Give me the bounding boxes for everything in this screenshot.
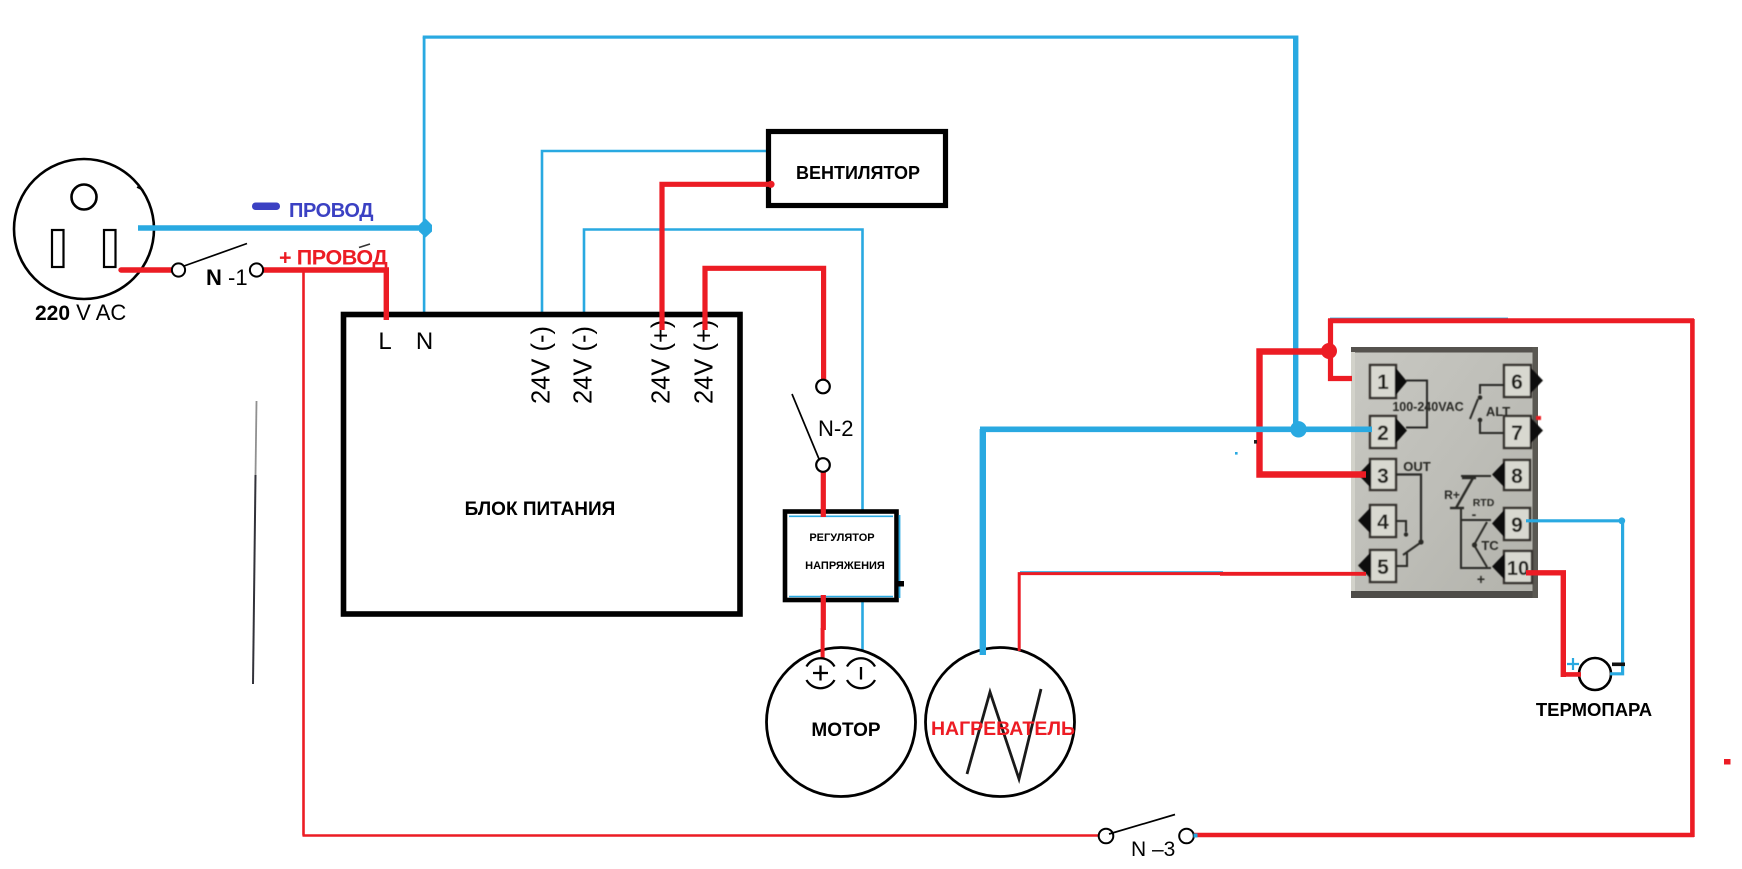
wire blue plug to junction <box>138 225 424 230</box>
svg-text:НАГРЕВАТЕЛЬ: НАГРЕВАТЕЛЬ <box>931 718 1075 740</box>
svg-text:100-240VAC: 100-240VAC <box>1392 400 1463 414</box>
svg-text:6: 6 <box>1511 371 1523 394</box>
red dot artifact right margin <box>1724 759 1731 765</box>
pin 9 <box>1504 508 1530 540</box>
legend dash blue <box>252 203 280 211</box>
wire red bottom left to switch N-3 <box>303 834 1100 837</box>
wire blue top horizontal <box>423 36 1296 39</box>
wire red plug to switch N-1 <box>121 267 173 272</box>
svg-text:БЛОК ПИТАНИЯ: БЛОК ПИТАНИЯ <box>465 499 616 520</box>
svg-text:5: 5 <box>1377 556 1389 579</box>
wire blue 24V(-) #1 to fan <box>542 151 774 320</box>
stray pencil line <box>256 401 257 475</box>
junction dot blue (controller) <box>1290 421 1306 437</box>
svg-text:L: L <box>378 328 391 355</box>
wire blue thin artifact above heater red wire <box>1020 571 1223 573</box>
wire blue N vertical riser <box>423 37 426 229</box>
pin 8 <box>1504 460 1530 490</box>
module pins and internal wiring <box>1358 365 1543 587</box>
svg-text:-: - <box>1472 506 1477 522</box>
wire blue horizontal to controller pin 2 <box>980 426 1372 432</box>
svg-text:OUT: OUT <box>1403 459 1431 474</box>
ALT switch <box>1480 385 1505 394</box>
svg-text:24V (-): 24V (-) <box>528 326 556 404</box>
pin 7 <box>1504 416 1531 448</box>
motor terminal (+) rotated <box>807 658 835 688</box>
wire blue right drop thick <box>1293 36 1298 430</box>
speck blue near module <box>1235 452 1238 455</box>
svg-text:ТЕРМОПАРА: ТЕРМОПАРА <box>1536 699 1652 720</box>
svg-text:8: 8 <box>1511 465 1523 488</box>
svg-text:R+: R+ <box>1444 488 1460 502</box>
plug 220V AC <box>14 159 154 299</box>
svg-text:4: 4 <box>1377 511 1389 534</box>
wire red thin branch down left side <box>302 272 305 836</box>
svg-text:N-2: N-2 <box>818 416 853 441</box>
bracket pins 1-2 <box>1406 381 1427 428</box>
svg-text:РЕГУЛЯТОР: РЕГУЛЯТОР <box>809 532 874 544</box>
motor terminal (-) rotated <box>847 658 875 688</box>
svg-text:ПРОВОД: ПРОВОД <box>289 200 373 222</box>
junction dot blue (plug) <box>419 219 432 238</box>
svg-text:N -1: N -1 <box>206 265 248 290</box>
wire blue pin 9 to thermocouple <box>1526 521 1623 674</box>
svg-text:N –3: N –3 <box>1131 838 1175 861</box>
switch N-2 <box>792 380 830 472</box>
wire red pin 10 to thermocouple <box>1526 573 1563 677</box>
svg-text:10: 10 <box>1507 558 1529 580</box>
red tick at pin 7 <box>1536 416 1541 420</box>
pin 3 <box>1370 459 1396 490</box>
regulator box РЕГУЛЯТОР НАПРЯЖЕНИЯ <box>785 512 904 601</box>
svg-text:НАПРЯЖЕНИЯ: НАПРЯЖЕНИЯ <box>805 560 885 572</box>
wire red regulator to motor <box>821 595 826 630</box>
motor circle <box>767 648 916 797</box>
wire blue N drop to power box <box>423 229 426 319</box>
wire blue 24V(-) #2 to motor <box>584 230 863 656</box>
svg-text:TC: TC <box>1481 538 1499 553</box>
svg-text:2: 2 <box>1377 422 1389 445</box>
heater element zigzag <box>967 689 1041 779</box>
thermocouple minus sign <box>1612 663 1625 667</box>
thermocouple circle <box>1579 658 1611 690</box>
pin 1 <box>1370 365 1396 398</box>
thermocouple plus sign (cyan) <box>1567 658 1579 670</box>
stray tick artifact <box>359 244 370 248</box>
wire red right riser <box>1690 319 1695 837</box>
wire red bottom right from N-3 to right riser <box>1193 833 1694 838</box>
svg-text:24V (+): 24V (+) <box>691 320 719 404</box>
junction dot red <box>1321 343 1337 359</box>
TC thermocouple input <box>1461 508 1491 520</box>
pin 6 <box>1504 365 1531 397</box>
wire red junction to pin 3 <box>1260 352 1367 475</box>
svg-text:24V (+): 24V (+) <box>648 320 676 404</box>
wire red top right horizontal <box>1328 318 1694 323</box>
pin 5 <box>1370 550 1396 582</box>
PID controller module photo <box>1351 347 1538 598</box>
pin 10 <box>1504 551 1532 583</box>
svg-text:7: 7 <box>1511 422 1523 445</box>
svg-text:МОТОР: МОТОР <box>811 720 881 741</box>
svg-text:+ ПРОВОД: + ПРОВОД <box>279 246 387 270</box>
fan box ВЕНТИЛЯТОР <box>769 132 946 206</box>
pin 2 <box>1370 416 1396 448</box>
wire red heater to pin 5 <box>1019 574 1222 651</box>
OUT contact <box>1396 475 1421 541</box>
speck black near module <box>1254 440 1257 444</box>
wire red N-2 to regulator <box>821 472 826 517</box>
svg-text:1: 1 <box>1377 371 1389 394</box>
svg-text:9: 9 <box>1511 514 1523 537</box>
wire red 24V(+) #1 to fan <box>662 184 769 330</box>
wire blue heater riser thick <box>980 429 986 655</box>
svg-text:ВЕНТИЛЯТОР: ВЕНТИЛЯТОР <box>796 163 920 183</box>
power supply box БЛОК ПИТАНИЯ <box>344 315 741 615</box>
svg-text:3: 3 <box>1377 465 1389 488</box>
heater circle <box>926 648 1075 797</box>
wire red 24V(+) #2 to switch N-2 <box>705 268 824 380</box>
svg-text:+: + <box>1477 571 1485 587</box>
wire red + ПРОВОД from N-1 to L <box>263 270 386 320</box>
wire red corner to junction and pin 1 <box>1331 319 1353 379</box>
svg-text:N: N <box>416 328 433 355</box>
switch N-3 <box>1099 815 1198 844</box>
svg-text:24V (-): 24V (-) <box>570 326 598 404</box>
svg-text:220 V AC: 220 V AC <box>35 300 126 325</box>
svg-text:ALT: ALT <box>1486 404 1510 419</box>
switch N-1 <box>172 244 263 277</box>
wire cyan artifact along top-right red wire <box>1330 318 1508 320</box>
pin 4 <box>1370 505 1396 537</box>
